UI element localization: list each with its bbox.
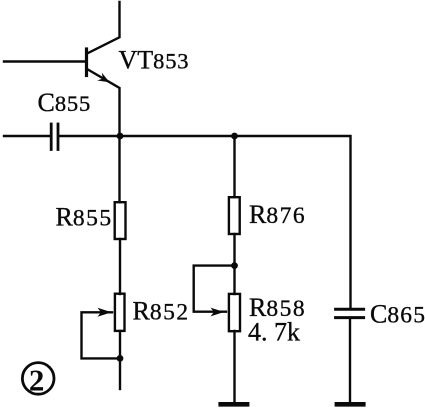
svg-text:C865: C865	[370, 300, 425, 329]
svg-text:4. 7k: 4. 7k	[248, 317, 300, 346]
svg-text:VT853: VT853	[119, 46, 190, 75]
svg-text:R852: R852	[133, 297, 190, 326]
svg-text:R855: R855	[56, 203, 113, 232]
svg-text:R876: R876	[249, 200, 306, 229]
svg-text:C855: C855	[38, 88, 92, 117]
svg-text:2: 2	[29, 363, 45, 398]
